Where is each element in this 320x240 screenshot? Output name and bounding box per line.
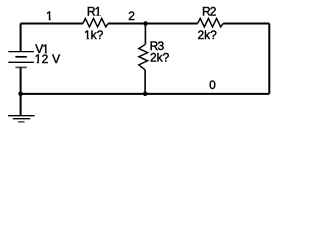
junction node 2 (top of R3) — [143, 21, 148, 26]
svg-text:12 V: 12 V — [35, 52, 61, 66]
wire: R3 top stub from node 2 junction — [144, 23, 146, 44]
resistor R1 — [83, 18, 108, 27]
wire: left vertical from top corner to V1 positive terminal — [20, 23, 22, 51]
svg-text:1: 1 — [46, 9, 53, 23]
svg-text:2: 2 — [128, 9, 135, 23]
svg-text:R2: R2 — [202, 4, 217, 18]
resistor R2 — [198, 18, 224, 27]
wire: bottom segment (node 0) — [21, 93, 270, 95]
junction on node 0 (bottom of R3) — [143, 92, 148, 97]
voltage source V1 (battery) — [8, 52, 34, 68]
svg-text:2k?: 2k? — [198, 28, 218, 42]
wire: top left segment (node 1) from corner to R1 — [21, 22, 83, 24]
junction node 0 at ground branch — [18, 92, 23, 97]
wire: R3 bottom stub to node 0 — [144, 70, 146, 94]
wire: top middle segment (node 2) from R1 to R2 — [108, 22, 198, 24]
svg-text:2k?: 2k? — [150, 51, 170, 65]
wire: left vertical from V1 negative terminal to ground — [20, 67, 22, 115]
wire: top right segment from R2 to right corner — [223, 22, 269, 24]
ground — [8, 116, 35, 122]
svg-text:0: 0 — [209, 78, 216, 92]
svg-text:1k?: 1k? — [84, 28, 104, 42]
svg-text:R1: R1 — [87, 4, 102, 18]
wire: right vertical segment — [268, 23, 270, 93]
resistor R3 — [139, 44, 148, 70]
